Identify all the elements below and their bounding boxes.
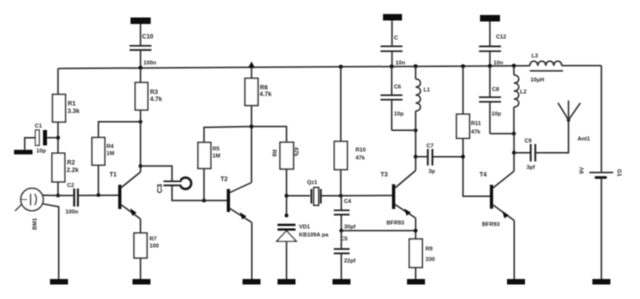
svg-text:T4: T4 — [480, 172, 488, 179]
svg-text:VD1: VD1 — [299, 225, 310, 231]
resistor R7 — [134, 233, 147, 258]
node rail C12/C8 — [488, 64, 492, 68]
microphone BM1 — [21, 188, 43, 210]
svg-text:R10: R10 — [356, 148, 366, 154]
wire battery to ground — [600, 178, 602, 280]
wire R7 to ground — [140, 258, 142, 279]
svg-text:R7: R7 — [150, 237, 157, 243]
wire R5 top to R6 node — [204, 127, 252, 143]
wire C9 to antenna — [535, 120, 568, 153]
wire coupling T1 to C3 — [141, 166, 173, 181]
ground (C1 local) — [14, 150, 33, 155]
capacitor C6 (tank 1) — [391, 67, 393, 96]
node rail/C10/R3 — [139, 66, 143, 70]
svg-text:C10: C10 — [142, 34, 154, 41]
svg-text:C1: C1 — [35, 124, 42, 130]
capacitor C decoupling with top ground bar — [383, 14, 402, 21]
svg-text:R3: R3 — [150, 89, 158, 96]
ground (R9) — [407, 279, 425, 285]
node tank2 bottom junction — [512, 132, 516, 136]
node T3 base junction — [339, 194, 343, 198]
svg-text:C8: C8 — [492, 87, 499, 93]
svg-text:G1: G1 — [616, 169, 622, 176]
ground (R7) — [133, 279, 151, 285]
ground (T2) — [243, 279, 261, 285]
svg-text:R1: R1 — [68, 101, 76, 108]
svg-text:1M: 1M — [213, 154, 221, 160]
resistor R11 — [461, 64, 465, 68]
resistor R4 — [97, 165, 99, 195]
svg-text:4.7k: 4.7k — [150, 96, 163, 103]
wire mic top pin to node — [43, 194, 58, 196]
svg-text:10n: 10n — [494, 61, 504, 67]
wire T3 emitter to R9 — [415, 218, 417, 239]
wire R2 to mic node — [57, 182, 59, 196]
node tank1 bottom junction — [414, 128, 418, 132]
wire C4/C5 node to T3 emitter — [341, 230, 415, 232]
svg-text:47k: 47k — [356, 156, 366, 162]
svg-text:C4: C4 — [344, 199, 352, 205]
wire R8 to crystal node — [286, 169, 288, 216]
svg-text:C: C — [394, 36, 398, 42]
svg-text:100n: 100n — [144, 61, 157, 67]
svg-text:T3: T3 — [381, 172, 389, 179]
svg-text:BFR93: BFR93 — [482, 222, 500, 228]
node R6 bottom junction — [250, 125, 254, 129]
svg-text:22pf: 22pf — [344, 259, 356, 265]
wire crystal node to Qz1 — [287, 195, 311, 197]
svg-text:L2: L2 — [520, 90, 527, 96]
ground (T4) — [507, 279, 525, 285]
svg-text:1M: 1M — [107, 151, 115, 157]
svg-text:L1: L1 — [424, 88, 431, 94]
capacitor C12 with top ground bar — [480, 15, 500, 22]
wire tank2 bottom — [490, 133, 514, 135]
svg-text:3p: 3p — [429, 169, 436, 175]
svg-text:9V: 9V — [580, 167, 586, 174]
node T1 collector coupling junction — [139, 164, 143, 168]
svg-text:L3: L3 — [532, 54, 539, 60]
resistor R10 — [339, 65, 343, 69]
wire C7 to R11 node — [432, 156, 463, 158]
node C4/C5 junction — [339, 229, 343, 233]
svg-text:BM1: BM1 — [33, 218, 39, 230]
node C9 junction — [512, 151, 516, 155]
capacitor C10 with top ground bar — [131, 18, 151, 25]
resistor R5 — [203, 169, 205, 201]
antenna Ant1 — [567, 118, 570, 121]
node R11/C7 junction — [461, 155, 465, 159]
wire left column from rail to R1 — [57, 69, 59, 95]
node R5 bottom junction — [202, 199, 206, 203]
node mic junction dot — [56, 194, 60, 198]
svg-text:330: 330 — [426, 257, 435, 263]
resistor R8 (rotated labels) — [280, 142, 294, 169]
svg-text:47k: 47k — [471, 130, 481, 136]
svg-text:C9: C9 — [525, 139, 532, 145]
wire C2 to T1 base — [78, 194, 119, 196]
wire R9 to ground — [415, 268, 417, 280]
resistor R1 — [53, 94, 66, 122]
ground (mic) — [50, 279, 68, 285]
svg-text:10n: 10n — [396, 61, 406, 67]
wire C1 to local ground — [25, 138, 36, 150]
wire R6 to T2 collector — [251, 106, 253, 183]
wire T4 emitter to ground — [513, 221, 515, 280]
svg-text:10p: 10p — [394, 112, 404, 118]
wire R1 to node A — [57, 122, 59, 153]
node VD1 junction — [285, 214, 289, 218]
svg-text:T2: T2 — [221, 176, 229, 183]
capacitor C8 (tank 2) — [489, 66, 491, 97]
capacitor C2 — [58, 195, 73, 197]
ground (battery) — [592, 279, 610, 285]
wire C3 to T2 base — [172, 185, 228, 200]
wire R11 to T4 base — [463, 138, 491, 196]
svg-text:10μH: 10μH — [531, 78, 545, 84]
wire rail after L3 to battery — [562, 65, 602, 67]
node C7 junction — [414, 155, 418, 159]
resistor R3 — [140, 68, 142, 83]
varactor diode VD1 — [278, 224, 296, 226]
wire R6 node to R8 — [252, 127, 287, 143]
svg-text:2.2k: 2.2k — [67, 167, 80, 174]
capacitor C7 — [416, 156, 428, 158]
node R4 bottom junction — [97, 193, 101, 197]
wire T2 emitter to ground — [251, 223, 253, 280]
svg-text:R2: R2 — [67, 160, 75, 167]
wire R3 to T1 collector — [140, 110, 142, 172]
svg-text:R8: R8 — [271, 150, 277, 157]
wire VD1 to ground — [286, 241, 288, 279]
battery G1 — [600, 66, 602, 172]
svg-text:R11: R11 — [471, 121, 481, 127]
resistor R9 — [409, 239, 422, 268]
capacitor C9 — [514, 152, 530, 154]
wire tank1 bottom — [392, 129, 416, 131]
svg-text:T1: T1 — [110, 172, 118, 179]
inductor L2 — [512, 64, 516, 68]
svg-text:3.3k: 3.3k — [68, 108, 81, 115]
wire mic bottom pin to ground — [43, 204, 59, 279]
capacitor C3 (series coupling, rotated label and ring) — [164, 180, 182, 182]
svg-text:C12: C12 — [496, 35, 506, 41]
wire R4 top to R3 node — [98, 122, 140, 138]
wire tank2 to T4 collector — [513, 134, 515, 172]
svg-text:C7: C7 — [427, 144, 434, 150]
wire T3 collector to tank — [415, 130, 417, 170]
wire T1 emitter to R7 — [140, 219, 142, 233]
ground (VD1) — [278, 279, 296, 285]
svg-text:100n: 100n — [66, 210, 79, 216]
node crystal junction — [285, 194, 289, 198]
svg-text:Qz1: Qz1 — [307, 180, 317, 186]
svg-text:R5: R5 — [213, 147, 220, 153]
svg-text:3pf: 3pf — [527, 165, 536, 171]
svg-text:KB109A pa: KB109A pa — [299, 233, 329, 239]
node A junction dot — [56, 136, 60, 140]
svg-text:R4: R4 — [107, 144, 115, 150]
node emitter feedback junction — [414, 229, 418, 233]
svg-text:10p: 10p — [492, 112, 502, 118]
svg-text:R9: R9 — [426, 247, 433, 253]
resistor R6 — [248, 62, 255, 69]
svg-text:100: 100 — [150, 244, 159, 250]
svg-text:C3: C3 — [155, 184, 164, 193]
resistor R2 — [52, 153, 65, 182]
svg-text:BFR93: BFR93 — [387, 221, 405, 227]
wire T3 base — [341, 195, 393, 197]
svg-text:10p: 10p — [36, 149, 46, 155]
svg-text:30pf: 30pf — [344, 225, 356, 231]
wire Vcc rail — [58, 66, 530, 69]
ground (C5) — [333, 279, 351, 285]
wire Qz1 to T3 base node — [321, 195, 341, 197]
svg-text:Ant1: Ant1 — [578, 137, 590, 143]
wire C5 to ground — [340, 253, 342, 279]
svg-text:C6: C6 — [394, 85, 401, 91]
capacitor C1 — [47, 137, 58, 139]
svg-text:C2: C2 — [67, 183, 74, 189]
inductor L1 — [414, 64, 418, 68]
svg-text:47k: 47k — [293, 147, 299, 157]
node rail C6 — [390, 65, 394, 69]
svg-text:4.7k: 4.7k — [260, 91, 273, 98]
